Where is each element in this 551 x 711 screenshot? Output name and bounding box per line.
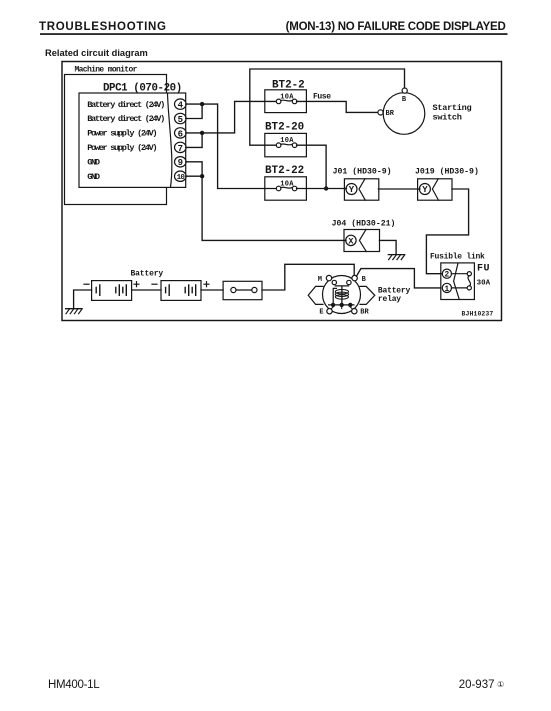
battery relay left flap xyxy=(308,286,323,304)
wire pin7 tie to pin6 xyxy=(186,133,202,148)
svg-text:Fusible link: Fusible link xyxy=(430,253,485,262)
wire BT2-20 right to J01 row xyxy=(297,145,327,188)
node pin4/5 junction xyxy=(200,102,204,106)
pin 10 xyxy=(175,171,187,182)
svg-text:BT2-22: BT2-22 xyxy=(265,165,304,177)
svg-text:10: 10 xyxy=(177,174,186,182)
relay terminal E xyxy=(327,309,332,314)
relay coil xyxy=(335,290,348,300)
diagram border frame xyxy=(62,62,502,321)
connector J01 xyxy=(344,179,378,200)
wire battery1 to ground xyxy=(74,290,92,309)
svg-text:Battery direct (24V): Battery direct (24V) xyxy=(87,114,164,124)
svg-text:B: B xyxy=(362,276,367,284)
wire J019 to fusible link pin2 xyxy=(426,189,468,274)
pin 4 xyxy=(175,99,187,111)
fuse BT2-20 xyxy=(265,133,307,156)
svg-text:BT2-20: BT2-20 xyxy=(265,122,304,134)
relay moving contact bar xyxy=(335,286,348,304)
svg-text:switch: switch xyxy=(433,112,462,122)
relay bottom stems xyxy=(331,307,353,309)
wire disconnect switch to relay B xyxy=(262,264,354,290)
svg-text:7: 7 xyxy=(178,144,183,154)
svg-text:5: 5 xyxy=(178,115,183,125)
svg-text:BR: BR xyxy=(360,308,369,316)
node pin6/7 junction xyxy=(200,131,204,135)
label Battery relay xyxy=(378,287,411,305)
svg-text:1: 1 xyxy=(445,286,450,294)
sign minus battery2 xyxy=(152,283,157,285)
ground battery xyxy=(66,309,83,314)
svg-text:Y: Y xyxy=(422,185,428,195)
node pin9/10 junction xyxy=(200,174,204,178)
relay coil lead xyxy=(333,288,336,304)
wire starting switch B to BT2-20 xyxy=(250,69,405,145)
svg-text:BR: BR xyxy=(386,110,395,118)
svg-text:M: M xyxy=(318,276,322,284)
wire pin10 to J04 xyxy=(186,176,346,240)
battery BAT1 xyxy=(92,281,132,301)
pin 5 xyxy=(175,113,187,125)
svg-text:Related circuit diagram: Related circuit diagram xyxy=(45,48,148,58)
svg-text:E: E xyxy=(319,308,323,316)
svg-text:Power supply (24V): Power supply (24V) xyxy=(87,143,156,153)
fuse BT2-2 xyxy=(265,90,307,113)
machine monitor box xyxy=(65,75,167,205)
svg-text:30A: 30A xyxy=(477,280,491,288)
svg-text:GND: GND xyxy=(87,158,100,168)
wire pin9 tie to pin10 xyxy=(186,162,202,176)
relay contact right xyxy=(347,280,351,284)
node BT2-20/BT2-22 junction xyxy=(324,186,328,190)
wire relay B to fusible link pin1 xyxy=(357,269,441,288)
relay terminal B xyxy=(352,275,357,280)
svg-text:Battery: Battery xyxy=(131,270,164,279)
sign plus battery1 xyxy=(134,282,139,287)
battery BAT2 xyxy=(161,281,201,301)
svg-text:6: 6 xyxy=(178,129,183,139)
svg-text:Machine monitor: Machine monitor xyxy=(75,66,138,75)
connector J04 xyxy=(344,230,380,252)
relay bottom node left xyxy=(331,303,335,307)
starting switch xyxy=(378,88,425,134)
svg-text:J01 (HD30-9): J01 (HD30-9) xyxy=(333,166,392,176)
relay terminal BR xyxy=(352,309,357,314)
svg-text:9: 9 xyxy=(178,158,183,168)
wire battery2 to disconnect switch xyxy=(201,289,223,291)
svg-text:Y: Y xyxy=(349,185,355,195)
battery relay right flap xyxy=(360,286,375,304)
battery relay body xyxy=(323,276,361,314)
svg-text:TROUBLESHOOTING: TROUBLESHOOTING xyxy=(39,21,167,33)
svg-text:B: B xyxy=(402,96,407,104)
relay terminal M xyxy=(326,275,331,280)
svg-text:FU: FU xyxy=(477,264,490,275)
svg-text:J04 (HD30-21): J04 (HD30-21) xyxy=(332,219,396,229)
svg-text:Battery direct (24V): Battery direct (24V) xyxy=(87,100,164,110)
relay bottom node right xyxy=(348,303,352,307)
fusible link FU xyxy=(441,263,475,300)
wire J01 to J019 xyxy=(378,188,420,190)
wire pin5 tie to pin4 xyxy=(186,104,202,118)
ground J04 xyxy=(388,255,405,260)
header underline xyxy=(40,33,508,35)
svg-text:2: 2 xyxy=(445,272,450,280)
svg-text:X: X xyxy=(348,236,354,246)
fuse BT2-22 xyxy=(265,177,307,200)
wire BT2-22 to J01 xyxy=(297,188,347,190)
svg-text:J019 (HD30-9): J019 (HD30-9) xyxy=(415,166,479,176)
svg-text:relay: relay xyxy=(378,295,401,304)
connector DPC1 body xyxy=(79,93,186,187)
pin 7 xyxy=(175,142,187,154)
relay bottom bar xyxy=(329,304,354,306)
connector J019 xyxy=(418,179,452,200)
disconnect switch SW xyxy=(223,281,262,299)
wire BT2-2 to starting switch BR xyxy=(297,101,378,112)
pin 6 xyxy=(175,128,187,140)
wire J04 to ground xyxy=(380,240,397,254)
sign plus battery2 xyxy=(204,282,209,287)
svg-text:BJH10237: BJH10237 xyxy=(462,311,494,318)
wire pin6 to BT2-2 xyxy=(186,101,276,132)
relay contact left xyxy=(332,280,336,284)
label Starting switch xyxy=(433,103,472,122)
svg-text:4: 4 xyxy=(178,101,184,111)
sign minus battery1 xyxy=(84,283,89,285)
wire battery1 to battery2 xyxy=(132,289,161,291)
svg-text:20-937: 20-937 xyxy=(459,679,495,691)
svg-text:①: ① xyxy=(497,680,504,689)
svg-text:GND: GND xyxy=(87,172,100,182)
svg-text:Power supply (24V): Power supply (24V) xyxy=(87,129,156,139)
wire pin4 to BT2-22 xyxy=(186,104,276,188)
pin 9 xyxy=(175,157,187,169)
svg-text:HM400-1L: HM400-1L xyxy=(48,679,100,691)
svg-text:(MON-13) NO FAILURE CODE DISPL: (MON-13) NO FAILURE CODE DISPLAYED xyxy=(286,21,506,33)
relay bottom node mid xyxy=(340,303,344,307)
svg-text:Fuse: Fuse xyxy=(313,93,331,102)
